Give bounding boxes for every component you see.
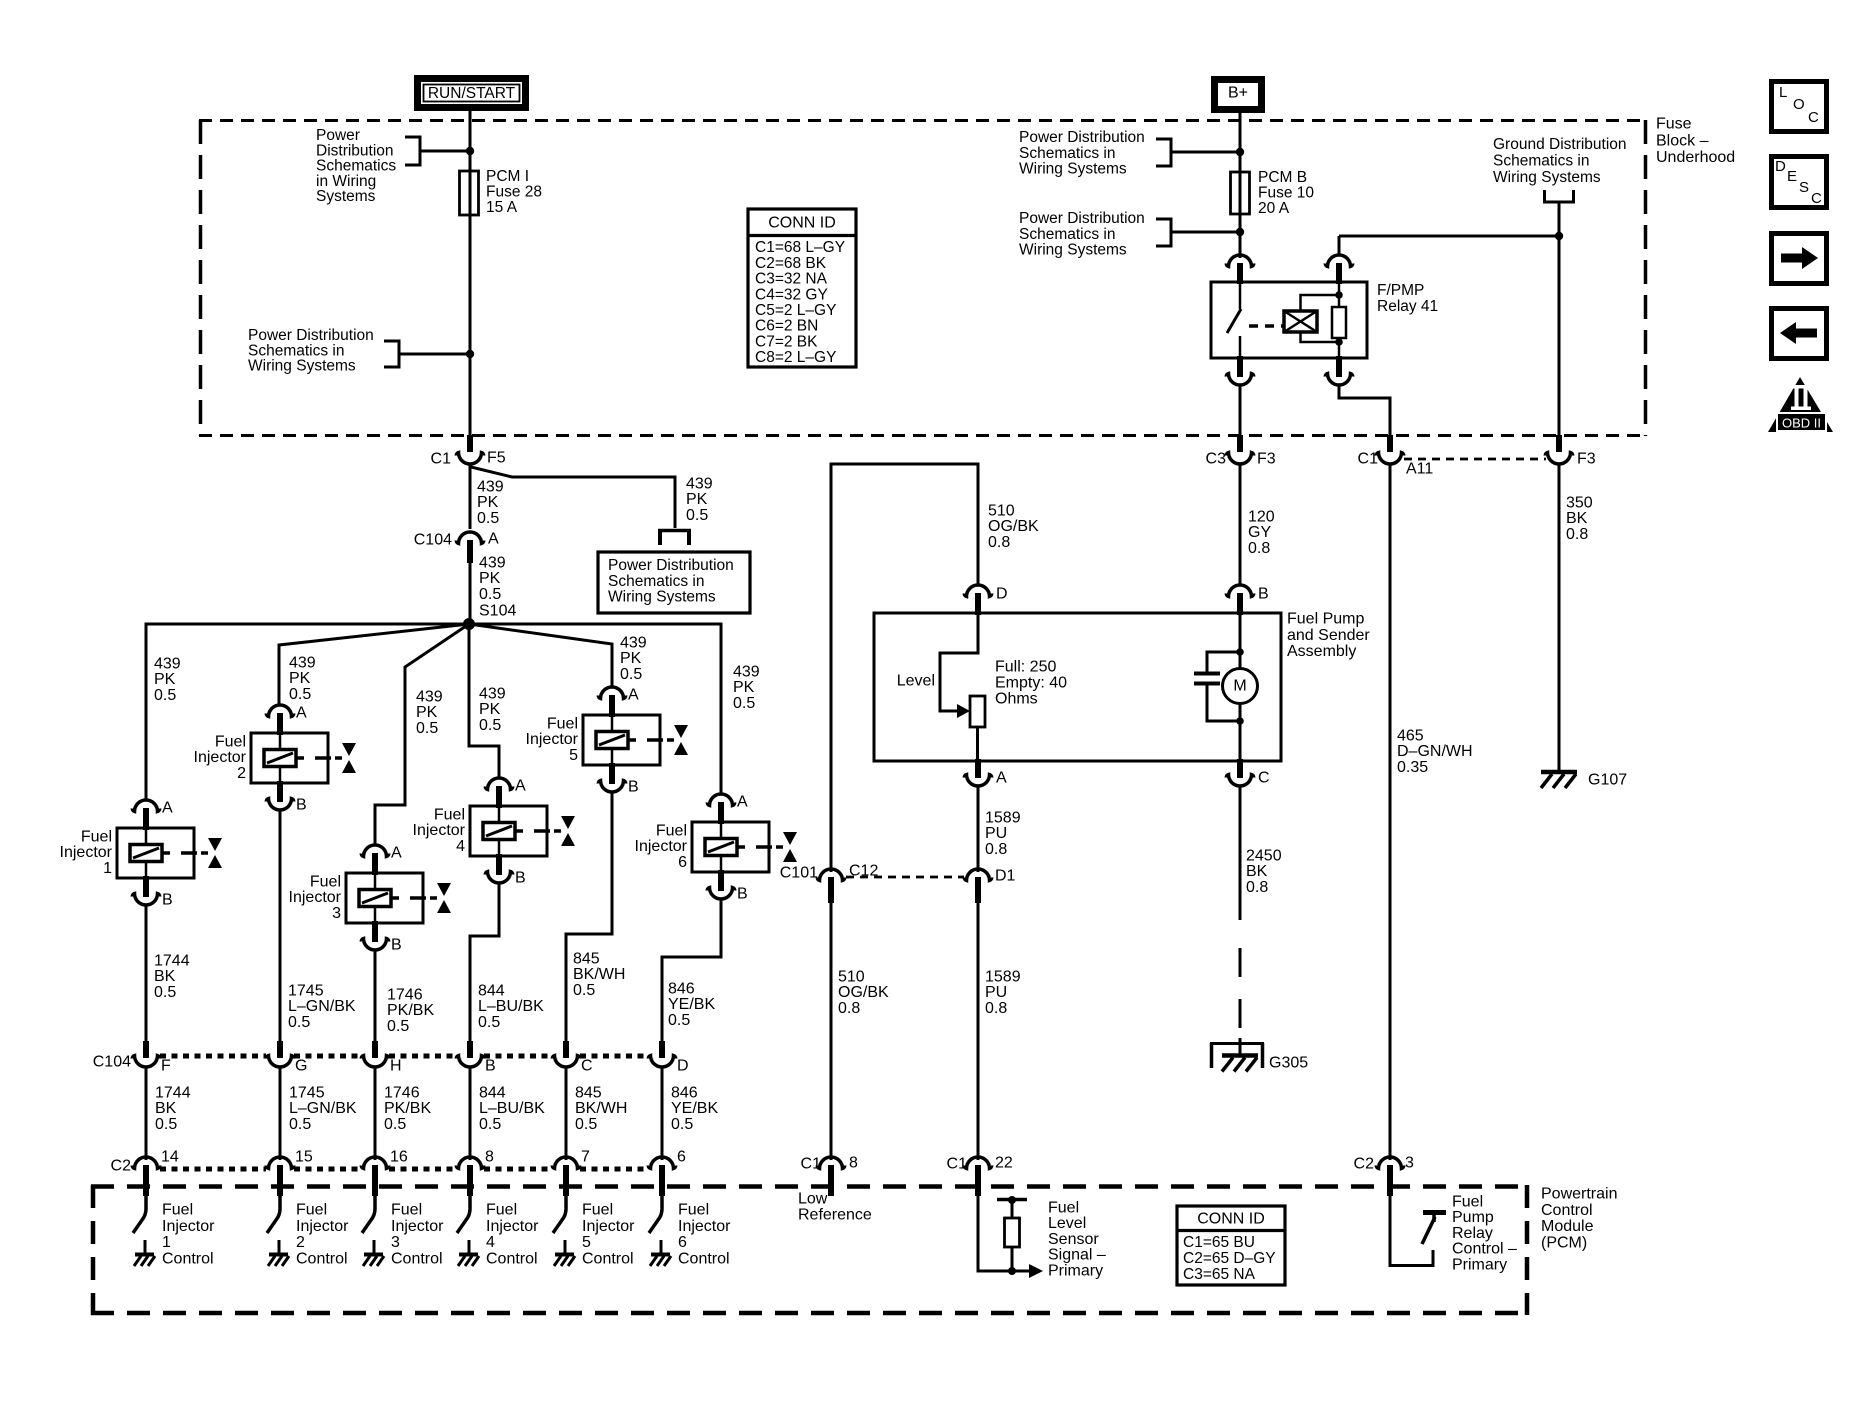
- svg-text:A11: A11: [1406, 461, 1433, 478]
- svg-text:Primary: Primary: [1452, 1256, 1507, 1273]
- svg-text:844: 844: [478, 983, 505, 1000]
- svg-text:Fuel: Fuel: [81, 829, 112, 846]
- wire C1 A11 down to PCM C2 3 (465 D-GN/WH): [1389, 464, 1392, 1160]
- connector D1: [964, 869, 991, 903]
- connector D (fuel pump): [964, 585, 991, 615]
- svg-text:C1: C1: [947, 1156, 968, 1173]
- wire ground distribution down to F3: [1558, 202, 1561, 437]
- svg-text:Systems: Systems: [316, 188, 376, 205]
- callout bracket Power Distribution Schematics (lower right): [1156, 218, 1240, 248]
- svg-text:Fuel: Fuel: [1048, 1200, 1079, 1217]
- svg-text:Reference: Reference: [798, 1207, 872, 1224]
- callout bracket Power Distribution Schematics (upper right): [1156, 138, 1240, 168]
- svg-text:S104: S104: [479, 603, 516, 620]
- callout bracket ground distribution: [1543, 190, 1575, 202]
- svg-text:845: 845: [573, 951, 600, 968]
- fuel injector 1: [60, 800, 222, 909]
- svg-text:PK: PK: [477, 494, 499, 511]
- label 510 OG/BK 0.8 (upper): [988, 503, 1039, 551]
- connector C1 8 (low reference): [817, 1157, 844, 1196]
- svg-text:0.8: 0.8: [1566, 526, 1588, 543]
- label Low Reference: [798, 1191, 872, 1224]
- label C1 (at A11): [1358, 451, 1379, 468]
- svg-text:0.5: 0.5: [479, 1116, 501, 1133]
- svg-text:Power Distribution: Power Distribution: [1019, 210, 1145, 227]
- svg-text:Relay 41: Relay 41: [1377, 298, 1438, 315]
- PCM fuel level sense network: [978, 1196, 1043, 1278]
- node junction second tap (B+): [1236, 228, 1244, 236]
- label C1 (at F5): [431, 451, 452, 468]
- svg-text:Signal –: Signal –: [1048, 1247, 1106, 1264]
- connector C104 A: [456, 532, 483, 563]
- svg-text:Fuel: Fuel: [678, 1202, 709, 1219]
- svg-text:CONN ID: CONN ID: [1197, 1211, 1265, 1228]
- wire C1 F5 to C104 A: [469, 464, 472, 529]
- wire B+ down to relay: [1239, 113, 1242, 258]
- svg-text:B+: B+: [1228, 85, 1248, 102]
- wire S104 to injector 2 (439 PK): [279, 624, 469, 705]
- svg-text:F5: F5: [487, 450, 506, 467]
- svg-text:6: 6: [678, 1234, 687, 1251]
- icon DESC button: [1772, 157, 1827, 208]
- svg-text:(PCM): (PCM): [1541, 1234, 1587, 1251]
- label Fuel Pump Relay Control - Primary: [1452, 1194, 1517, 1274]
- svg-text:C: C: [1808, 109, 1819, 126]
- svg-text:Fuel: Fuel: [162, 1202, 193, 1219]
- svg-text:846: 846: [668, 981, 695, 998]
- dashed connector line A11 to F3: [1404, 458, 1546, 461]
- label 439 PK 0.5 (injector 2): [289, 655, 316, 703]
- label G305: [1269, 1055, 1308, 1072]
- svg-text:439: 439: [289, 655, 316, 672]
- label F3 (C3): [1257, 451, 1276, 468]
- svg-text:844: 844: [479, 1085, 506, 1102]
- icon OBD II triangle: [1768, 377, 1833, 432]
- svg-text:0.5: 0.5: [387, 1018, 409, 1035]
- relay pin 85 connector (top right): [1325, 236, 1352, 284]
- svg-text:Fuel: Fuel: [656, 823, 687, 840]
- connector A (fuel pump): [964, 759, 991, 786]
- PCM driver fuel injector 2 control: [267, 1196, 289, 1266]
- svg-text:Power Distribution: Power Distribution: [608, 557, 734, 574]
- svg-text:B: B: [162, 892, 173, 909]
- svg-text:C2: C2: [1354, 1156, 1375, 1173]
- svg-text:Injector: Injector: [194, 749, 247, 766]
- connector F3 (ground wire): [1545, 435, 1572, 464]
- svg-text:L–BU/BK: L–BU/BK: [478, 998, 544, 1015]
- label C3: [1206, 451, 1227, 468]
- label 844 L–BU/BK 0.5 (lower): [479, 1085, 545, 1133]
- label Level: [897, 673, 935, 690]
- svg-text:A: A: [391, 845, 402, 862]
- svg-text:Fuel: Fuel: [434, 807, 465, 824]
- wire S104 to injector 3 (439 PK): [375, 624, 469, 845]
- label 2450 BK 0.8: [1246, 848, 1282, 896]
- label 439 PK 0.5 (injector 1): [154, 656, 181, 704]
- PCM driver fuel injector 6 control: [649, 1196, 671, 1266]
- svg-text:Fuel: Fuel: [547, 716, 578, 733]
- svg-text:Fuel: Fuel: [391, 1202, 422, 1219]
- splice S104: [463, 618, 475, 630]
- wire S104 to injector 5 (439 PK): [469, 624, 612, 687]
- svg-text:YE/BK: YE/BK: [671, 1100, 718, 1117]
- svg-text:PK/BK: PK/BK: [384, 1100, 431, 1117]
- fuel pump motor: [1223, 613, 1258, 761]
- svg-text:Module: Module: [1541, 1218, 1594, 1235]
- svg-text:PK: PK: [733, 679, 755, 696]
- svg-text:Injector: Injector: [526, 731, 579, 748]
- power feed box RUN/START: [418, 79, 526, 108]
- svg-text:0.8: 0.8: [1246, 879, 1268, 896]
- wire fuel pump D up-and-over to C101 (510 OG/BK): [831, 464, 978, 872]
- label C2 (row): [111, 1158, 132, 1175]
- page tab bracket to power distribution box: [658, 530, 691, 545]
- wire D1 down to PCM C1 22 (1589 PU): [977, 900, 980, 1160]
- svg-text:0.5: 0.5: [620, 666, 642, 683]
- label Power Distribution Schematics in Wiring Systems (5 lines): [316, 127, 396, 205]
- svg-text:Control: Control: [296, 1250, 348, 1267]
- svg-text:2: 2: [296, 1234, 305, 1251]
- svg-text:BK: BK: [154, 968, 176, 985]
- label 439 PK 0.5 (injector 3): [416, 689, 443, 737]
- svg-text:5: 5: [569, 747, 578, 764]
- svg-text:439: 439: [416, 689, 443, 706]
- icon back arrow button: [1772, 309, 1827, 359]
- box Power Distribution Schematics in Wiring Systems: [598, 552, 750, 613]
- svg-text:L–GN/BK: L–GN/BK: [288, 998, 356, 1015]
- svg-text:Empty: 40: Empty: 40: [995, 675, 1067, 692]
- svg-text:439: 439: [477, 479, 504, 496]
- connector C1 A11: [1376, 435, 1403, 464]
- connector C101 C12: [817, 869, 844, 903]
- PCM driver fuel injector 5 control: [553, 1196, 575, 1266]
- svg-text:2450: 2450: [1246, 848, 1282, 865]
- label D1: [995, 868, 1016, 885]
- label A11: [1406, 461, 1433, 478]
- svg-text:BK: BK: [1246, 863, 1268, 880]
- connector row C2 (pins 14 15 16 8 7 6): [132, 1149, 686, 1197]
- label Fuel Injector 5 Control: [582, 1202, 635, 1268]
- svg-text:Powertrain: Powertrain: [1541, 1186, 1617, 1203]
- label F5: [487, 450, 506, 467]
- svg-text:Level: Level: [897, 673, 935, 690]
- svg-text:C: C: [1811, 190, 1822, 207]
- wire RUN/START down to C1 F5: [469, 111, 472, 437]
- label 1744 BK 0.5 (lower): [155, 1085, 191, 1133]
- svg-text:0.5: 0.5: [288, 1014, 310, 1031]
- connector C1 F5: [456, 435, 483, 464]
- label 1746 PK/BK 0.5 (upper): [387, 987, 434, 1035]
- svg-text:PK: PK: [620, 650, 642, 667]
- svg-text:Injector: Injector: [162, 1218, 215, 1235]
- label C104 (at A): [414, 532, 452, 549]
- label Fuel Injector 1 Control: [162, 1202, 215, 1268]
- connector row C104 (cavities F G H B C D): [132, 1041, 688, 1075]
- dashed wire continuation to G305: [1239, 948, 1242, 1057]
- svg-text:F3: F3: [1257, 451, 1276, 468]
- svg-text:0.5: 0.5: [289, 686, 311, 703]
- svg-text:C2: C2: [111, 1158, 132, 1175]
- svg-text:G107: G107: [1588, 772, 1627, 789]
- svg-text:YE/BK: YE/BK: [668, 996, 715, 1013]
- svg-text:0.5: 0.5: [477, 510, 499, 527]
- relay pin 86 connector (bottom right): [1325, 356, 1352, 385]
- CONN ID table (PCM): [1177, 1206, 1285, 1285]
- svg-text:Control: Control: [1541, 1202, 1593, 1219]
- ground G305: [1210, 1043, 1264, 1072]
- svg-text:Control: Control: [162, 1250, 214, 1267]
- svg-text:B: B: [296, 797, 307, 814]
- svg-text:1745: 1745: [289, 1085, 325, 1102]
- wire injector 6 B to C104 D (846 YE/BK): [662, 899, 721, 1044]
- label Powertrain Control Module (PCM): [1541, 1186, 1617, 1252]
- svg-text:1744: 1744: [155, 1085, 191, 1102]
- wire injector 1 B to C104 F (1744 BK): [145, 905, 148, 1044]
- label 844 L-BU/BK 0.5 (upper): [478, 983, 544, 1031]
- svg-text:Fuel: Fuel: [296, 1202, 327, 1219]
- svg-text:Power Distribution: Power Distribution: [1019, 129, 1145, 146]
- svg-text:1744: 1744: [154, 953, 190, 970]
- svg-text:Relay: Relay: [1452, 1225, 1493, 1242]
- callout bracket Power Distribution Schematics (upper left): [405, 136, 470, 167]
- label PCM I Fuse 28 15 A: [486, 168, 542, 216]
- label 1745 L-GN/BK 0.5 (upper): [288, 983, 356, 1031]
- svg-text:2: 2: [237, 765, 246, 782]
- svg-text:0.5: 0.5: [479, 717, 501, 734]
- svg-text:Injector: Injector: [582, 1218, 635, 1235]
- svg-text:B: B: [1258, 586, 1269, 603]
- svg-text:439: 439: [620, 635, 647, 652]
- wire injector 4 B to C104 B (844 L-BU/BK): [470, 883, 499, 1044]
- svg-text:Wiring Systems: Wiring Systems: [1019, 242, 1127, 259]
- svg-text:0.5: 0.5: [155, 1116, 177, 1133]
- svg-text:D1: D1: [995, 868, 1016, 885]
- svg-text:PK: PK: [686, 491, 708, 508]
- svg-text:OG/BK: OG/BK: [838, 984, 889, 1001]
- svg-text:D: D: [677, 1058, 689, 1075]
- label Fuel Injector 4 Control: [486, 1202, 539, 1268]
- svg-text:C5=2 L–GY: C5=2 L–GY: [755, 302, 836, 319]
- svg-text:C2=65 D–GY: C2=65 D–GY: [1183, 1250, 1276, 1267]
- connector C2 3 (fuel pump relay control): [1376, 1157, 1403, 1196]
- svg-text:BK: BK: [155, 1100, 177, 1117]
- svg-text:120: 120: [1248, 509, 1275, 526]
- wire A down to D1 (1589 PU): [977, 786, 980, 872]
- wire injector 2 B to C104 G (1745 L-GN/BK): [279, 810, 282, 1044]
- label 1744 BK 0.5 (upper): [154, 953, 190, 1001]
- label 3: [1405, 1155, 1414, 1172]
- svg-text:Injector: Injector: [60, 844, 113, 861]
- label F3 (right): [1577, 451, 1596, 468]
- svg-text:Injector: Injector: [635, 838, 688, 855]
- PCM fuel pump relay driver: [1390, 1196, 1446, 1266]
- svg-text:Schematics in: Schematics in: [1493, 153, 1589, 170]
- label D: [996, 586, 1008, 603]
- svg-text:D–GN/WH: D–GN/WH: [1397, 743, 1473, 760]
- wire relay pin 86 to C1 A11: [1339, 385, 1390, 437]
- svg-text:A: A: [162, 800, 173, 817]
- label Ground Distribution Schematics in Wiring Systems: [1493, 136, 1627, 186]
- svg-text:Low: Low: [798, 1191, 828, 1208]
- svg-text:Wiring Systems: Wiring Systems: [248, 358, 356, 375]
- wire injector 5 B to C104 C (845 BK/WH): [566, 792, 612, 1044]
- svg-text:Control: Control: [486, 1250, 538, 1267]
- svg-text:A: A: [296, 705, 307, 722]
- label 1745 L–GN/BK 0.5 (lower): [289, 1085, 357, 1133]
- svg-text:C1=65 BU: C1=65 BU: [1183, 1234, 1255, 1251]
- label Power Distribution Schematics in Wiring Systems (B+ upper): [1019, 129, 1145, 177]
- svg-text:15 A: 15 A: [486, 199, 518, 216]
- label 120 GY 0.8: [1248, 509, 1275, 557]
- svg-text:C104: C104: [93, 1054, 131, 1071]
- svg-text:0.8: 0.8: [838, 1000, 860, 1017]
- label 845 BK/WH 0.5 (upper): [573, 951, 625, 999]
- svg-text:PCM B: PCM B: [1258, 169, 1307, 186]
- svg-text:0.5: 0.5: [671, 1116, 693, 1133]
- svg-text:3: 3: [1405, 1155, 1414, 1172]
- svg-text:846: 846: [671, 1085, 698, 1102]
- svg-text:510: 510: [838, 969, 865, 986]
- svg-text:OBD II: OBD II: [1782, 416, 1821, 431]
- svg-text:Injector: Injector: [678, 1218, 731, 1235]
- svg-text:0.5: 0.5: [416, 720, 438, 737]
- label Power Distribution Schematics in Wiring Systems (3 lines): [248, 327, 374, 374]
- svg-text:GY: GY: [1248, 524, 1271, 541]
- label 439 PK 0.5 (below F5): [477, 479, 504, 527]
- svg-text:D: D: [996, 586, 1008, 603]
- fuel injector 5: [526, 687, 688, 796]
- fuse block - underhood dashed outline: [199, 120, 1647, 436]
- PCM dashed outline (Powertrain Control Module): [91, 1185, 1529, 1315]
- label 439 PK 0.5 (injector 6): [733, 664, 760, 712]
- svg-text:PK: PK: [289, 670, 311, 687]
- svg-text:PU: PU: [985, 984, 1007, 1001]
- svg-text:Fuse 28: Fuse 28: [486, 184, 542, 201]
- svg-text:Pump: Pump: [1452, 1209, 1494, 1226]
- PCM driver fuel injector 1 control: [133, 1196, 155, 1266]
- label 1589 PU 0.8 (upper): [985, 810, 1021, 858]
- label Power Distribution Schematics in Wiring Systems (B+ lower): [1019, 210, 1145, 258]
- svg-text:and Sender: and Sender: [1287, 627, 1370, 644]
- PCM driver fuel injector 3 control: [362, 1196, 384, 1266]
- fuel injector 4: [413, 778, 575, 887]
- wire S104 to injector 4 (439 PK): [469, 624, 499, 778]
- callout bracket Power Distribution Schematics (lower left): [384, 340, 470, 369]
- wire relay coil feed to ground-distribution wire: [1339, 235, 1559, 238]
- svg-text:O: O: [1793, 96, 1805, 113]
- svg-text:B: B: [628, 779, 639, 796]
- svg-text:L–BU/BK: L–BU/BK: [479, 1100, 545, 1117]
- label 350 BK 0.8: [1566, 495, 1593, 543]
- svg-text:3: 3: [332, 905, 341, 922]
- svg-text:C101: C101: [780, 865, 818, 882]
- wire C down toward G305 (2450 BK): [1239, 786, 1242, 920]
- svg-text:1745: 1745: [288, 983, 324, 1000]
- label 510 OG/BK 0.8 (lower): [838, 969, 889, 1017]
- svg-text:Wiring Systems: Wiring Systems: [1019, 161, 1127, 178]
- wire C104 to PCM C2 (1746 PK/BK): [374, 1067, 377, 1160]
- svg-text:PK: PK: [479, 701, 501, 718]
- svg-text:Injector: Injector: [391, 1218, 444, 1235]
- svg-text:Injector: Injector: [289, 889, 342, 906]
- label 8: [849, 1155, 858, 1172]
- svg-text:A: A: [996, 770, 1007, 787]
- svg-text:0.5: 0.5: [154, 687, 176, 704]
- svg-text:20 A: 20 A: [1258, 200, 1290, 217]
- svg-text:Fuel: Fuel: [486, 1202, 517, 1219]
- svg-text:C3=65 NA: C3=65 NA: [1183, 1266, 1256, 1283]
- svg-text:PU: PU: [985, 825, 1007, 842]
- label 22: [995, 1155, 1013, 1172]
- svg-text:439: 439: [733, 664, 760, 681]
- label 439 PK 0.5 (injector 5): [620, 635, 647, 683]
- svg-text:510: 510: [988, 503, 1015, 520]
- svg-text:0.5: 0.5: [575, 1116, 597, 1133]
- svg-text:PCM I: PCM I: [486, 168, 529, 185]
- label C1 (pin 22): [947, 1156, 968, 1173]
- node junction at first power-distribution tap (left): [466, 147, 474, 155]
- svg-text:1746: 1746: [387, 987, 423, 1004]
- svg-text:B: B: [485, 1058, 496, 1075]
- svg-text:Control: Control: [582, 1250, 634, 1267]
- svg-text:Sensor: Sensor: [1048, 1231, 1099, 1248]
- svg-text:PK: PK: [416, 704, 438, 721]
- svg-text:0.8: 0.8: [985, 841, 1007, 858]
- svg-text:L–GN/BK: L–GN/BK: [289, 1100, 357, 1117]
- svg-text:0.5: 0.5: [478, 1014, 500, 1031]
- connector C (fuel pump): [1226, 759, 1253, 786]
- svg-text:6: 6: [678, 854, 687, 871]
- svg-text:Underhood: Underhood: [1656, 149, 1735, 166]
- label Full: 250 Empty: 40 Ohms: [995, 659, 1067, 708]
- svg-text:Fuel: Fuel: [310, 874, 341, 891]
- label Fuel Level Sensor Signal - Primary: [1048, 1200, 1106, 1280]
- svg-text:439: 439: [479, 555, 506, 572]
- capacitor across fuel pump motor: [1194, 652, 1240, 721]
- ground G107: [1541, 772, 1577, 788]
- svg-text:0.5: 0.5: [668, 1012, 690, 1029]
- svg-text:4: 4: [486, 1234, 495, 1251]
- svg-text:B: B: [391, 937, 402, 954]
- icon LOC button: [1772, 82, 1827, 132]
- label Fuel Injector 3 Control: [391, 1202, 444, 1268]
- svg-text:G305: G305: [1269, 1055, 1308, 1072]
- svg-text:Schematics in: Schematics in: [1019, 145, 1115, 162]
- svg-text:C3: C3: [1206, 451, 1227, 468]
- svg-text:350: 350: [1566, 495, 1593, 512]
- label Fuel Injector 2 Control: [296, 1202, 349, 1268]
- label PCM B Fuse 10 20 A: [1258, 169, 1314, 217]
- label C101: [780, 865, 818, 882]
- fuel injector 3: [289, 845, 451, 954]
- node junction on ground wire: [1555, 232, 1563, 240]
- svg-text:845: 845: [575, 1085, 602, 1102]
- svg-text:Control: Control: [678, 1250, 730, 1267]
- svg-text:A: A: [628, 687, 639, 704]
- svg-text:0.5: 0.5: [384, 1116, 406, 1133]
- icon forward arrow button: [1772, 234, 1827, 284]
- svg-text:C4=32 GY: C4=32 GY: [755, 286, 828, 303]
- svg-text:Assembly: Assembly: [1287, 643, 1356, 660]
- svg-text:H: H: [390, 1058, 402, 1075]
- svg-text:439: 439: [479, 686, 506, 703]
- label 845 BK/WH 0.5 (lower): [575, 1085, 627, 1133]
- svg-text:Wiring Systems: Wiring Systems: [1493, 169, 1601, 186]
- svg-text:C1: C1: [431, 451, 452, 468]
- svg-text:7: 7: [581, 1149, 590, 1166]
- label C2 (pin 3): [1354, 1156, 1375, 1173]
- svg-text:Injector: Injector: [296, 1218, 349, 1235]
